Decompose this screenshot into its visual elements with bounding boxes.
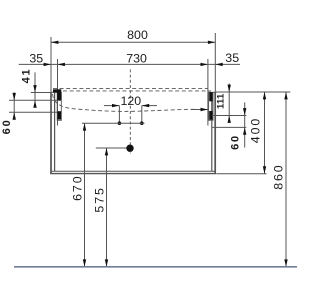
dimension line 35 right [208, 63, 240, 66]
label 60 left [1, 118, 13, 134]
left fixing extension H1 [31, 92, 51, 94]
svg-text:35: 35 [29, 52, 43, 66]
svg-text:730: 730 [126, 52, 147, 66]
right fixing extension H4 [212, 115, 246, 117]
label 60 right [230, 134, 242, 150]
extension line right inner [207, 59, 209, 92]
dimension line 35 left [19, 63, 58, 66]
label 730 [126, 52, 147, 66]
cabinet right inner wall [207, 92, 209, 125]
label 575 [93, 186, 107, 212]
left fixing extension H3 [9, 111, 62, 113]
dimension 670 [83, 123, 86, 267]
label 800 [127, 28, 148, 42]
bowl edge arrow to wall [191, 108, 208, 111]
right bracket outline [209, 93, 213, 121]
dimension line 800 [51, 41, 215, 44]
left bracket outline [57, 93, 61, 121]
right bracket lower block [209, 111, 212, 120]
basin hidden edge dashed upper [53, 88, 208, 90]
label 35 right [225, 51, 239, 65]
floor line [14, 266, 297, 268]
dimension 860 [284, 92, 287, 267]
drain line [96, 147, 130, 149]
dimension 111 [228, 84, 231, 123]
basin hidden edge dashed lower [53, 90, 211, 92]
label 860 [271, 163, 285, 189]
svg-text:800: 800 [127, 28, 148, 42]
dimension 41 [33, 72, 36, 107]
top extension right [215, 91, 290, 93]
svg-text:400: 400 [249, 117, 263, 143]
cabinet bottom inner line [51, 170, 216, 172]
cabinet top left cap [51, 91, 58, 93]
bottom extension right [216, 173, 266, 175]
cabinet bottom outer line [50, 173, 216, 175]
dimension line 120 right arrow [142, 104, 157, 107]
svg-text:35: 35 [225, 51, 239, 65]
cabinet top right cap [208, 91, 217, 93]
basin bowl dashed outline [53, 94, 197, 111]
label 111 [216, 93, 227, 109]
cabinet left inner wall [57, 92, 59, 125]
dimension 60 right [243, 102, 246, 147]
dashed centerline [129, 69, 131, 153]
left fixing extension H2 [9, 99, 62, 101]
label 400 [249, 117, 263, 143]
dimension 575 [105, 148, 108, 267]
dimension 60 left [13, 93, 16, 120]
label 670 [71, 175, 85, 201]
cabinet left wall [50, 92, 52, 173]
extension line left inner [57, 59, 59, 92]
drain dot [126, 145, 133, 152]
right fixing extension H5 [212, 126, 246, 128]
label 120 [120, 94, 141, 108]
svg-text:860: 860 [271, 163, 285, 189]
cabinet left inner panel line [54, 92, 56, 171]
svg-text:60: 60 [230, 134, 242, 150]
dimension line 730 [58, 63, 208, 66]
svg-text:41: 41 [20, 68, 32, 84]
tap hole dot left [118, 121, 122, 125]
cabinet right inner panel line [211, 92, 213, 171]
tap reference line [82, 122, 145, 124]
svg-text:670: 670 [71, 175, 85, 201]
tap hole extension left [118, 106, 120, 124]
dimension 400 [263, 92, 266, 174]
tap hole dot right [140, 121, 144, 125]
svg-text:120: 120 [120, 94, 141, 108]
label 35 left [29, 52, 43, 66]
svg-text:575: 575 [93, 186, 107, 212]
extension line right outer [214, 33, 216, 92]
left bracket upper block [53, 89, 61, 100]
right bracket upper block [209, 92, 212, 101]
left bracket lower block [57, 111, 61, 119]
cabinet right wall [214, 92, 216, 173]
extension line left outer [50, 37, 52, 92]
dimension line 120 left arrow [104, 104, 119, 107]
svg-text:60: 60 [1, 118, 13, 134]
label 41 [20, 68, 32, 84]
svg-text:111: 111 [216, 93, 227, 109]
tap hole extension right [141, 106, 143, 124]
